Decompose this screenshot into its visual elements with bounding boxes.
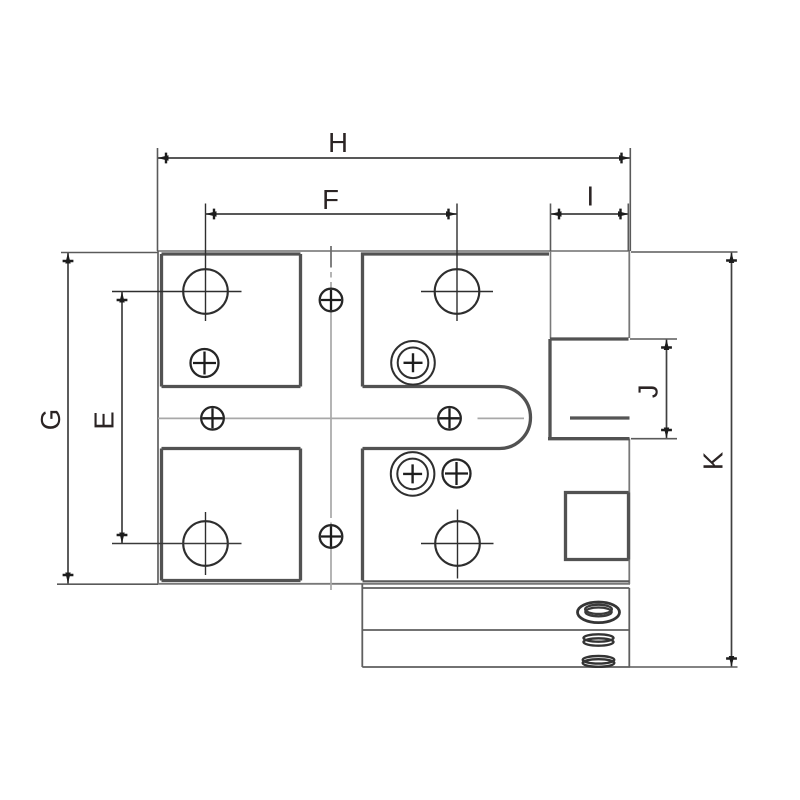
screw hole left cross xyxy=(193,352,216,375)
small screw slot middle cross xyxy=(440,408,460,428)
small screw slot left xyxy=(201,407,224,430)
dimension K extension lines xyxy=(630,252,738,667)
small screw strip top cross xyxy=(321,290,341,310)
body outline right edge lower xyxy=(628,439,630,585)
step face line x=550 xyxy=(550,251,552,339)
dimension K line xyxy=(731,252,733,667)
svg-text:G: G xyxy=(35,409,66,430)
dimension I line xyxy=(551,213,630,215)
svg-text:F: F xyxy=(322,184,339,215)
counterbore lower cross xyxy=(403,464,422,483)
J notch left edge xyxy=(548,339,551,439)
counterbore upper cross xyxy=(404,353,423,372)
dimension K arrows xyxy=(726,252,737,667)
svg-text:E: E xyxy=(89,411,120,429)
svg-text:H: H xyxy=(328,127,348,158)
dimension E extension lines (through left holes) xyxy=(112,543,242,545)
screw hole right (r14) xyxy=(443,460,471,488)
square notch xyxy=(566,493,629,560)
lower block outline xyxy=(362,584,630,667)
body outline left edge xyxy=(157,251,159,584)
pocket bottom-right left edge xyxy=(361,449,364,581)
body outline right edge upper xyxy=(628,251,630,338)
grommet middle xyxy=(584,634,614,645)
J notch bottom edge xyxy=(548,437,630,440)
hole bottom-left circle xyxy=(183,521,228,566)
centerline slot horizontal xyxy=(158,417,524,419)
dimension I arrows xyxy=(551,209,630,220)
small screw strip bottom xyxy=(320,525,343,548)
pocket bottom-right bottom edge xyxy=(363,580,630,582)
dimension I extension line xyxy=(551,204,629,252)
counterbore hole lower xyxy=(391,452,435,496)
grommet large inner xyxy=(585,605,612,617)
dimension H arrows xyxy=(158,153,631,164)
grommet large outer xyxy=(578,602,620,623)
dimension J line xyxy=(666,339,668,439)
lower block inner line xyxy=(362,629,629,631)
hole top-right crosshair xyxy=(421,204,493,322)
dimension F line xyxy=(206,213,458,215)
hole bottom-left crosshair xyxy=(205,512,207,575)
small screw slot middle xyxy=(438,407,461,430)
centerline vertical strip xyxy=(330,246,332,590)
dimension E line xyxy=(121,292,123,544)
hole bottom-right circle xyxy=(435,521,480,566)
hole top-left circle xyxy=(183,269,228,314)
J notch top edge xyxy=(550,337,629,340)
dimension H extension lines xyxy=(158,148,631,251)
dimension E arrows xyxy=(117,292,128,544)
dimension J arrows xyxy=(661,339,672,439)
J notch inner short line xyxy=(570,416,630,419)
hole top-left crosshair xyxy=(112,204,242,322)
dimension G arrows xyxy=(63,253,74,584)
grommet bottom xyxy=(583,656,615,667)
dimension G line xyxy=(67,253,69,584)
pocket bottom-left xyxy=(162,449,301,581)
dimension J extension lines xyxy=(630,339,677,439)
svg-text:I: I xyxy=(586,181,594,212)
svg-text:J: J xyxy=(633,384,664,398)
screw hole right cross xyxy=(445,462,468,485)
pocket top-right xyxy=(363,254,550,387)
hole bottom-right crosshair xyxy=(421,510,494,579)
dimension G extension lines xyxy=(57,253,158,585)
hole top-right circle xyxy=(435,269,480,314)
counterbore hole upper xyxy=(391,341,435,385)
slot rounded end xyxy=(363,387,531,449)
small screw strip top xyxy=(320,289,343,312)
small screw slot left cross xyxy=(203,408,223,428)
dimension F arrows xyxy=(206,209,458,220)
screw hole left (r14) xyxy=(191,349,219,377)
dimension H line xyxy=(158,157,631,159)
body outline bottom edge xyxy=(158,583,631,585)
body outline top edge xyxy=(158,250,631,252)
pocket top-left xyxy=(162,254,301,387)
small screw strip bottom cross xyxy=(321,527,341,547)
svg-text:K: K xyxy=(698,451,729,470)
